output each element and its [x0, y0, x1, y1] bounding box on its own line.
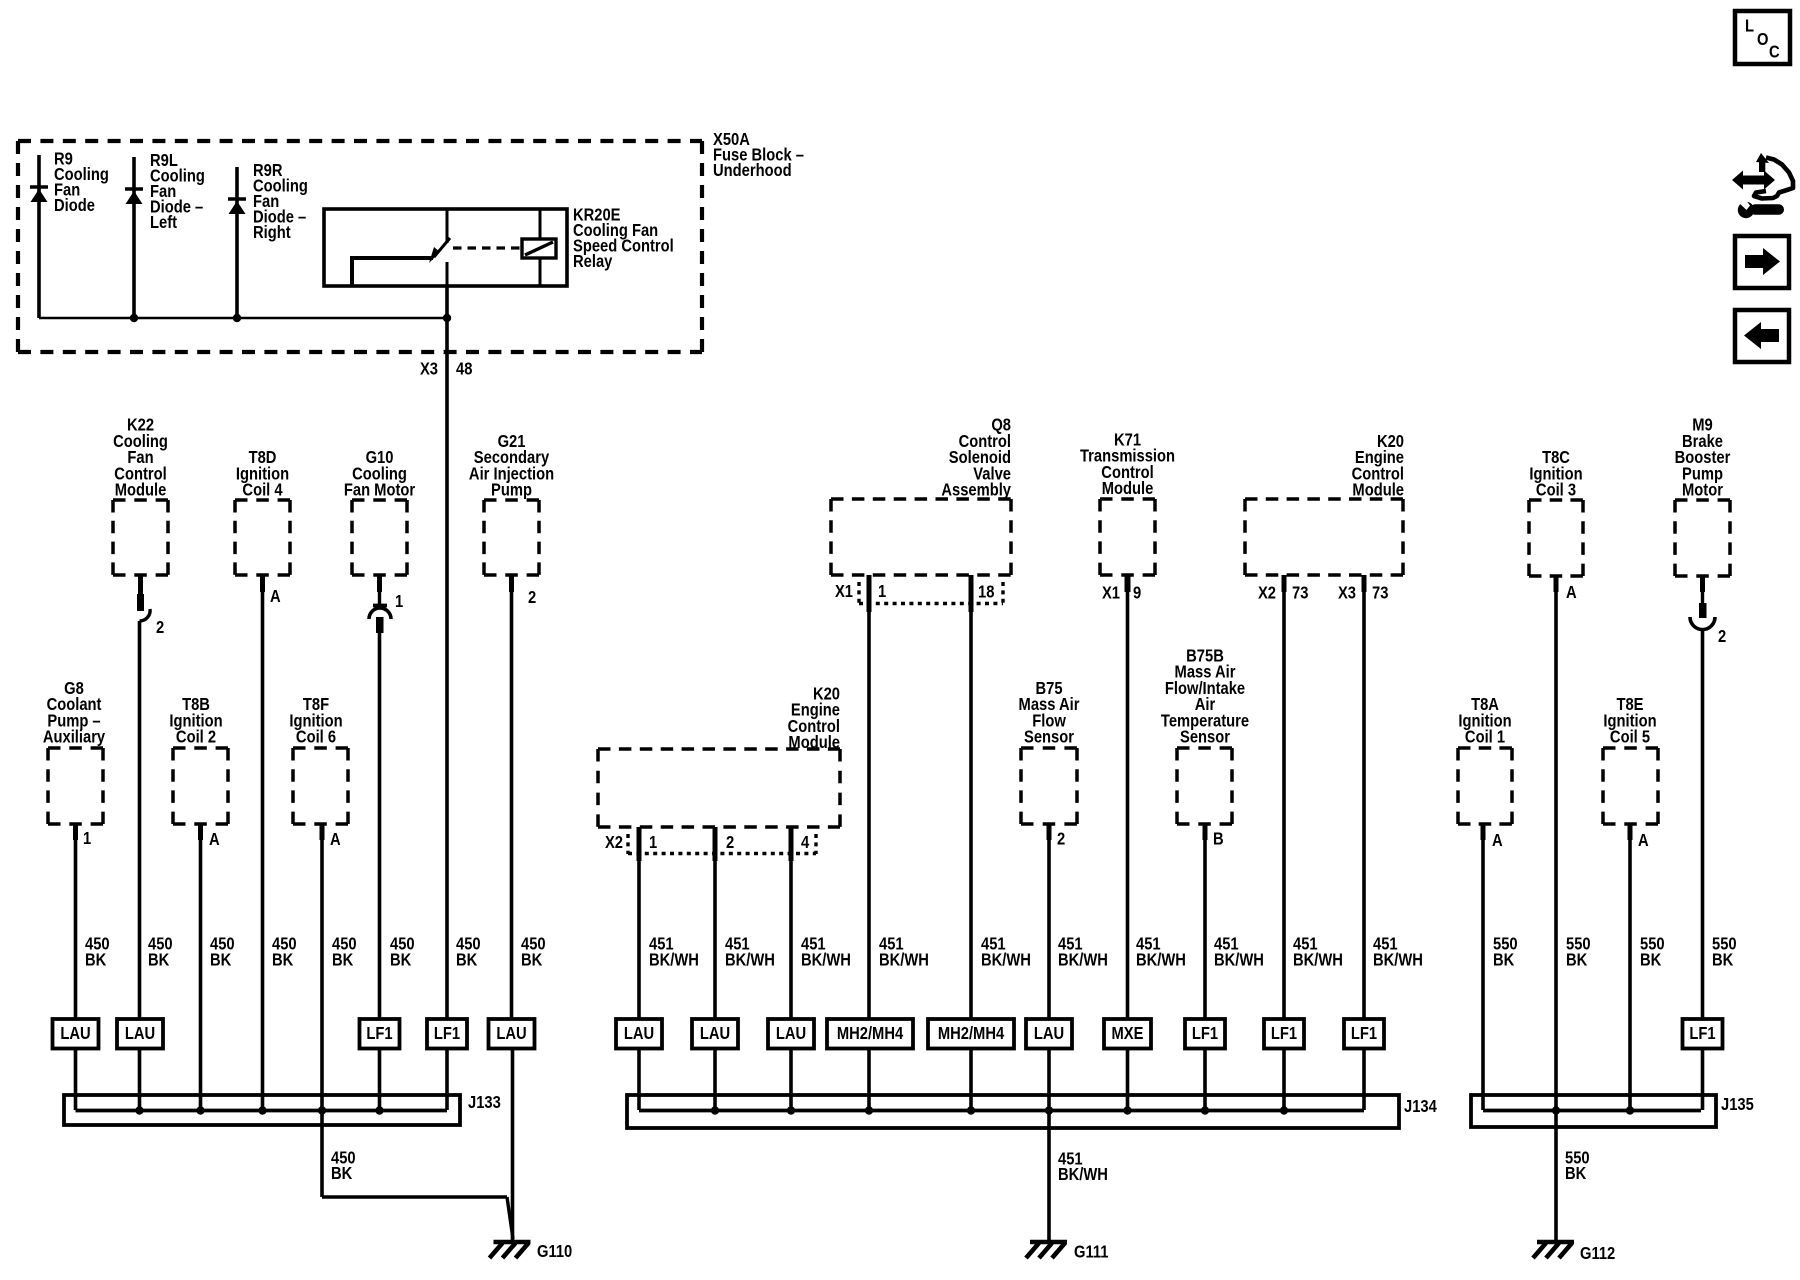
connector code LF1 (col 7) — [427, 1019, 467, 1049]
connector code LAU (col m3) — [768, 1019, 814, 1049]
sensor B75B (mass air flow / intake air temperature sensor) — [1161, 646, 1249, 849]
sensor B75 (mass air flow sensor) — [1019, 679, 1080, 849]
svg-text:Sensor: Sensor — [1024, 727, 1075, 747]
svg-text:9: 9 — [1133, 583, 1141, 603]
svg-text:Pump: Pump — [491, 480, 532, 500]
svg-text:2: 2 — [726, 833, 734, 853]
svg-text:BK: BK — [331, 1164, 352, 1184]
svg-text:LAU: LAU — [125, 1024, 155, 1044]
relay KR20E (cooling fan speed control relay) — [324, 205, 674, 286]
connector code LF1 (col m10) — [1344, 1019, 1384, 1049]
svg-text:Coil 2: Coil 2 — [176, 727, 216, 747]
svg-text:J134: J134 — [1404, 1097, 1438, 1117]
svg-text:L: L — [1745, 16, 1754, 36]
svg-text:48: 48 — [456, 359, 472, 379]
svg-text:BK: BK — [148, 950, 169, 970]
svg-text:BK/WH: BK/WH — [1136, 950, 1186, 970]
svg-text:BK: BK — [1640, 950, 1661, 970]
inline connector K22 pin 2 (terminal symbol) — [137, 594, 164, 637]
module K20 (engine control module, right) — [1245, 432, 1404, 603]
connector code LF1 (col 6) — [360, 1019, 400, 1049]
svg-text:LAU: LAU — [700, 1024, 730, 1044]
wire 450 BK G10 pin 1 to LAU splice (col 6) — [380, 633, 415, 1110]
coil T8D (ignition coil 4) — [235, 448, 290, 607]
wire 451 BK/WH Q8 pin 1 to MH2/MH4 (col m4) — [869, 612, 929, 1110]
splice pack J133 — [64, 1093, 501, 1125]
svg-text:LAU: LAU — [496, 1024, 526, 1044]
svg-text:LF1: LF1 — [1689, 1024, 1715, 1044]
svg-text:LF1: LF1 — [434, 1024, 460, 1044]
svg-text:BK: BK — [1493, 950, 1514, 970]
connector code LAU (col m6) — [1026, 1019, 1072, 1049]
wire 550 BK M9 pin 2 to LF1 (col r4) — [1703, 628, 1737, 1110]
wire 450 BK T8D pin A to J133 (col 4) — [263, 592, 297, 1110]
connector code MH2/MH4 (col m4) — [827, 1019, 913, 1049]
coil T8A (ignition coil 1) — [1458, 695, 1512, 851]
valve assembly Q8 (control solenoid valve assembly) — [831, 415, 1012, 575]
module K20 (engine control module, left) — [598, 684, 840, 827]
motor G10 (cooling fan motor) — [344, 448, 416, 612]
svg-text:LF1: LF1 — [1351, 1024, 1377, 1044]
connector code LAU (col m2) — [692, 1019, 738, 1049]
svg-text:BK/WH: BK/WH — [725, 950, 775, 970]
svg-text:BK/WH: BK/WH — [649, 950, 699, 970]
svg-text:BK/WH: BK/WH — [981, 950, 1031, 970]
svg-text:Module: Module — [115, 480, 167, 500]
svg-text:BK: BK — [1565, 1164, 1586, 1184]
svg-text:BK: BK — [1712, 950, 1733, 970]
svg-text:G112: G112 — [1580, 1244, 1615, 1264]
svg-text:1: 1 — [395, 592, 403, 612]
svg-text:1: 1 — [83, 829, 91, 849]
connector X3 pin 48 labels — [420, 359, 472, 379]
svg-text:C: C — [1769, 42, 1780, 62]
coil T8C (ignition coil 3) — [1529, 448, 1583, 603]
inline connector M9 pin 2 (terminal symbol) — [1690, 603, 1726, 646]
svg-text:Underhood: Underhood — [713, 161, 792, 181]
svg-text:Module: Module — [788, 733, 840, 753]
svg-text:A: A — [209, 830, 220, 850]
wire 451 BK/WH B75 pin 2 to LAU and ground G111 (col m6) — [1049, 840, 1108, 1241]
connector code LAU (col 1) — [53, 1019, 99, 1049]
svg-text:MXE: MXE — [1112, 1024, 1144, 1044]
svg-text:Auxiliary: Auxiliary — [43, 727, 106, 747]
coil T8F (ignition coil 6) — [289, 695, 348, 850]
svg-text:A: A — [270, 587, 281, 607]
svg-text:Coil 4: Coil 4 — [242, 480, 283, 500]
connector code LAU (col m1) — [616, 1019, 662, 1049]
svg-text:G111: G111 — [1074, 1242, 1108, 1262]
module K71 (transmission control module) — [1080, 430, 1175, 603]
svg-text:1: 1 — [649, 833, 657, 853]
wire 450 BK G21 pin 2 to LAU and ground G110 (col 8) — [512, 592, 546, 1241]
wire fuse block internal bus (diodes to relay) — [39, 314, 451, 322]
svg-text:LF1: LF1 — [1192, 1024, 1218, 1044]
svg-text:X2: X2 — [1258, 583, 1276, 603]
svg-text:G110: G110 — [537, 1242, 572, 1262]
svg-text:Module: Module — [1352, 480, 1404, 500]
svg-text:BK/WH: BK/WH — [1058, 950, 1108, 970]
svg-text:BK: BK — [272, 950, 293, 970]
wire 450 BK J133 to ground G110 — [322, 1110, 513, 1239]
wire 550 BK T8E pin A to J135 (col r3) — [1630, 840, 1665, 1110]
wire 550 BK T8A pin A to J135 (col r1) — [1483, 840, 1518, 1110]
svg-text:Coil 6: Coil 6 — [296, 727, 336, 747]
svg-text:LF1: LF1 — [1271, 1024, 1297, 1044]
connector code LF1 (col m9) — [1264, 1019, 1304, 1049]
connector code MXE (col m7) — [1104, 1019, 1151, 1049]
splice pack J134 — [627, 1095, 1438, 1128]
svg-text:73: 73 — [1292, 583, 1308, 603]
svg-text:BK: BK — [521, 950, 542, 970]
connector code MH2/MH4 (col m5) — [928, 1019, 1014, 1049]
connector code LAU (col 2) — [117, 1019, 163, 1049]
svg-text:4: 4 — [801, 833, 810, 853]
svg-text:BK: BK — [456, 950, 477, 970]
wire 450 BK T8F pin A to J133 (col 5) — [322, 840, 357, 1110]
svg-text:X3: X3 — [420, 359, 438, 379]
svg-text:BK/WH: BK/WH — [1373, 950, 1423, 970]
svg-text:Coil 5: Coil 5 — [1610, 727, 1650, 747]
svg-text:MH2/MH4: MH2/MH4 — [837, 1024, 904, 1044]
svg-text:BK: BK — [390, 950, 411, 970]
ground G112 — [1533, 1242, 1615, 1263]
svg-text:Motor: Motor — [1682, 480, 1723, 500]
connector code LF1 (col m8) — [1185, 1019, 1225, 1049]
svg-text:A: A — [330, 830, 341, 850]
svg-text:BK: BK — [85, 950, 106, 970]
svg-text:18: 18 — [978, 582, 994, 602]
connector X2 of K20 (dotted connector bar, pins 1 2 4) — [605, 827, 816, 861]
svg-text:BK: BK — [332, 950, 353, 970]
svg-text:Right: Right — [253, 223, 291, 243]
coil T8E (ignition coil 5) — [1603, 695, 1658, 851]
svg-text:Coil 1: Coil 1 — [1465, 727, 1505, 747]
svg-text:A: A — [1492, 831, 1503, 851]
svg-text:X1: X1 — [1102, 583, 1120, 603]
inline connector G10 pin 1 (terminal symbol) — [369, 606, 391, 634]
wire 450 BK T8B pin A to J133 (col 3) — [201, 840, 235, 1110]
svg-text:X1: X1 — [835, 582, 853, 602]
ground G110 — [490, 1242, 573, 1262]
svg-text:Module: Module — [1102, 479, 1154, 499]
wire 451 BK/WH K20 X3 pin 73 to LF1 (col m10) — [1364, 592, 1423, 1110]
wire 451 BK/WH B75B pin B to LF1 (col m8) — [1205, 840, 1264, 1110]
svg-text:2: 2 — [1718, 627, 1726, 647]
svg-text:Diode: Diode — [54, 196, 95, 216]
fuse block X50A boundary — [18, 130, 804, 352]
diode R9L (cooling fan diode left) — [125, 151, 205, 318]
svg-text:BK/WH: BK/WH — [801, 950, 851, 970]
svg-text:BK: BK — [210, 950, 231, 970]
wire 451 BK/WH K20 X2 pin 2 to LAU (col m2) — [715, 861, 775, 1110]
pump G8 (coolant pump auxiliary) — [43, 679, 106, 849]
wire 450 BK G8 pin 1 to LAU splice (col 1) — [76, 840, 110, 1110]
svg-text:1: 1 — [878, 582, 886, 602]
svg-text:A: A — [1566, 583, 1577, 603]
svg-text:BK/WH: BK/WH — [879, 950, 929, 970]
svg-text:BK: BK — [1566, 950, 1587, 970]
wire 451 BK/WH K20 X2 pin 4 to LAU (col m3) — [791, 861, 851, 1110]
icon arrow right (box) — [1735, 236, 1789, 288]
svg-text:LAU: LAU — [624, 1024, 654, 1044]
wire 451 BK/WH Q8 pin 18 to MH2/MH4 (col m5) — [971, 612, 1031, 1110]
svg-text:J133: J133 — [468, 1093, 501, 1113]
svg-text:2: 2 — [1057, 829, 1065, 849]
svg-text:X3: X3 — [1338, 583, 1356, 603]
wire 550 BK J135 to ground G112 label — [1565, 1148, 1590, 1183]
motor M9 (brake booster pump motor) — [1675, 415, 1731, 604]
svg-text:Assembly: Assembly — [941, 480, 1011, 500]
diode R9 (cooling fan diode) — [30, 149, 109, 318]
icon arrow left (box) — [1735, 310, 1789, 362]
wire 451 BK/WH K20 X2 pin 1 to LAU (col m1) — [639, 861, 699, 1110]
wire 451 BK/WH K20 X2 pin 73 to LF1 (col m9) — [1284, 592, 1343, 1110]
svg-text:LAU: LAU — [1034, 1024, 1064, 1044]
svg-text:MH2/MH4: MH2/MH4 — [938, 1024, 1005, 1044]
svg-text:Fan Motor: Fan Motor — [344, 480, 416, 500]
connector X1 of Q8 (dotted connector bar, pins 1 and 18) — [835, 575, 1003, 612]
wire 451 BK/WH J134 to ground G111 label — [1058, 1149, 1108, 1184]
svg-text:J135: J135 — [1721, 1095, 1754, 1115]
icon LOC (location box) — [1735, 11, 1790, 64]
svg-text:Left: Left — [150, 213, 177, 233]
svg-text:BK/WH: BK/WH — [1058, 1165, 1108, 1185]
diode R9R (cooling fan diode right) — [228, 161, 308, 318]
svg-text:Coil 3: Coil 3 — [1536, 480, 1576, 500]
connector code LF1 (col r4) — [1683, 1019, 1723, 1049]
svg-text:A: A — [1638, 831, 1649, 851]
svg-text:X2: X2 — [605, 833, 623, 853]
svg-text:B: B — [1213, 829, 1224, 849]
svg-text:LF1: LF1 — [366, 1024, 392, 1044]
svg-text:LAU: LAU — [60, 1024, 90, 1044]
coil T8B (ignition coil 2) — [169, 695, 228, 850]
splice pack J135 — [1471, 1095, 1754, 1127]
svg-text:Sensor: Sensor — [1180, 727, 1231, 747]
icon harness navigation (double arrow / outline / wrench) — [1732, 153, 1793, 218]
svg-text:2: 2 — [156, 618, 164, 638]
svg-text:LAU: LAU — [776, 1024, 806, 1044]
svg-text:Relay: Relay — [573, 252, 613, 272]
module K22 (cooling fan control module) — [113, 415, 168, 595]
wire 450 BK relay KR20E pin 48 to LF1 (col 7) — [447, 286, 481, 1110]
wire 450 BK K22 pin 2 to LAU splice (col 2) — [140, 621, 173, 1110]
wire 550 BK T8C pin A to J135 and ground G112 (col r2) — [1556, 592, 1591, 1241]
pump G21 (secondary air injection pump) — [469, 432, 554, 608]
svg-text:O: O — [1757, 30, 1769, 50]
ground G111 — [1026, 1242, 1108, 1262]
wire 451 BK/WH K71 X1 pin 9 to MXE (col m7) — [1128, 592, 1186, 1110]
connector code LAU (col 8) — [489, 1019, 535, 1049]
svg-text:73: 73 — [1372, 583, 1388, 603]
svg-text:BK/WH: BK/WH — [1214, 950, 1264, 970]
svg-text:2: 2 — [528, 588, 536, 608]
svg-text:BK/WH: BK/WH — [1293, 950, 1343, 970]
